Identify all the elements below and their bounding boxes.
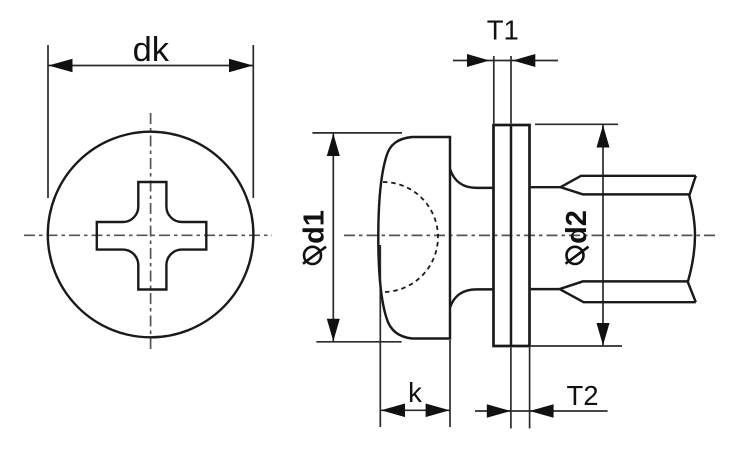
svg-text:d1: d1 — [299, 210, 331, 244]
svg-text:k: k — [408, 377, 422, 408]
svg-text:T2: T2 — [566, 380, 598, 411]
svg-text:dk: dk — [133, 31, 170, 69]
svg-text:d2: d2 — [561, 210, 593, 244]
svg-text:T1: T1 — [487, 15, 519, 46]
